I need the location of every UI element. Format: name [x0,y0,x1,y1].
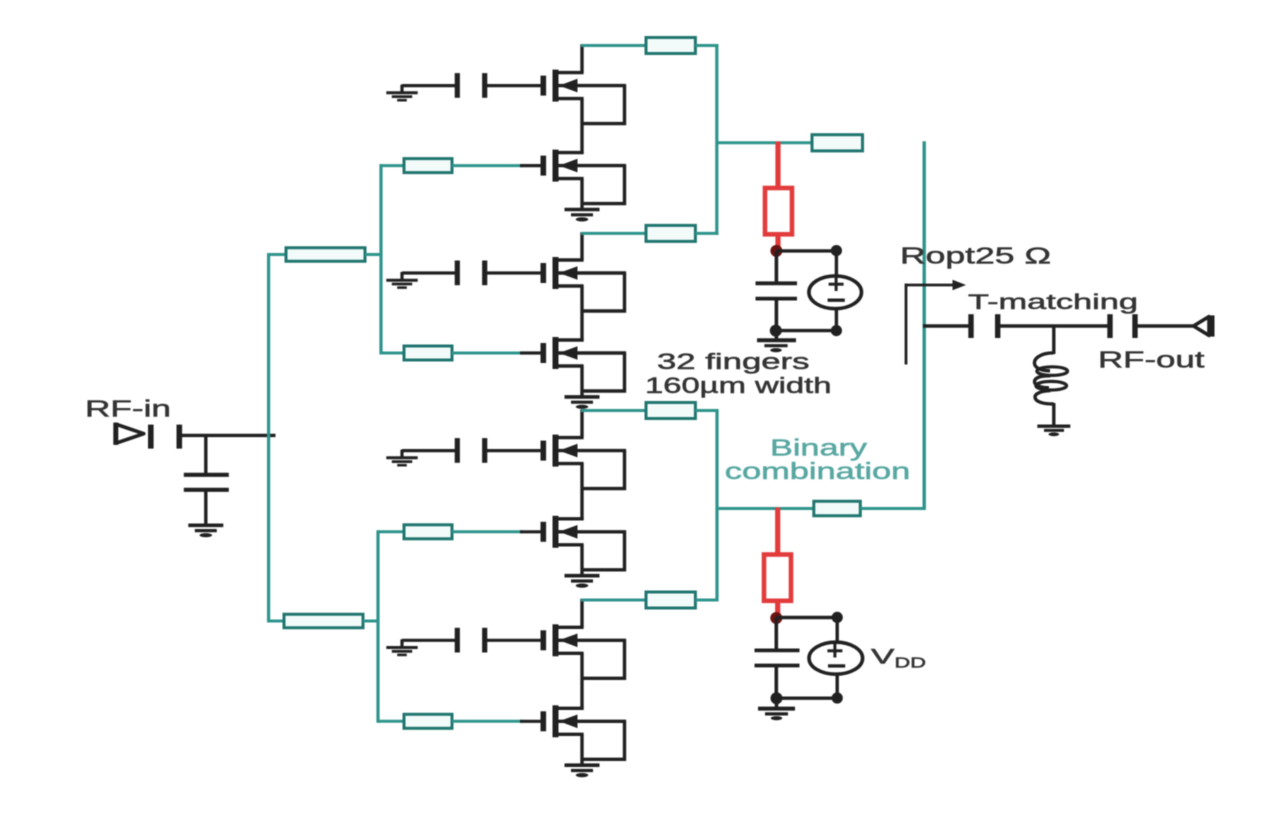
capacitor C-in plate 2 [177,425,183,449]
wire source bottom lead (lower) [836,674,839,698]
wire lower tap to feed node (teal) [717,507,815,510]
wire drain combine (teal) [695,409,718,412]
resistor RS1 (upper split) [286,248,365,262]
wire to ground (upper bypass) [775,331,779,339]
svg-text:Binary: Binary [770,435,867,461]
capacitor CB4 plate 2 [482,628,487,653]
ground (upper bypass) [757,340,796,352]
wire upper tap to feed node (teal) [717,141,813,144]
ground (T-match inductor) [1037,426,1070,436]
wire bias to gate [487,449,541,452]
wire input node [182,434,276,437]
voltage source V1 (VDD upper) [809,276,862,309]
wire to ground [204,492,207,525]
svg-text:V: V [871,646,894,669]
transistor M1a [543,70,626,124]
wire bias to gate [487,84,541,87]
node [831,245,842,256]
wire gate feed (black) [520,530,541,533]
wire source of M3b to ground [580,545,583,576]
resistor RS2 (lower split) [284,614,363,628]
wire bias row [402,271,456,274]
node [831,325,842,336]
resistor RD2 (drain resistor) [646,225,695,241]
port RF-out (output port symbol) [1194,315,1212,336]
svg-text:32 fingers: 32 fingers [657,349,810,374]
wire gate feed (black) [520,164,541,167]
wire to ground (lower bypass) [775,698,779,707]
wire bias to gate [487,639,541,642]
wire source of M4a to drain of M4b [580,653,583,710]
wire drain combine (teal) [581,232,647,235]
wire source of M2a to drain of M2b [580,286,583,342]
capacitor CB2 plate 2 [482,261,487,286]
svg-text:160µm width: 160µm width [645,373,832,398]
wire gate feed (teal) [381,352,405,355]
wire [363,620,380,623]
ground (lower bypass) [758,709,795,721]
wire upper branch to splitter resistor [267,253,287,256]
node [771,692,783,704]
svg-text:RF-in: RF-in [85,396,171,422]
wire gate feed (teal) [452,352,523,355]
ground (source of M4b) [565,765,600,777]
svg-text:combination: combination [725,458,911,484]
resistor RD3 (drain resistor) [646,403,695,419]
wire upper split rail (teal) [379,164,382,355]
wire source of M1b to ground [580,179,583,210]
wire shunt inductor stem [1052,326,1055,354]
wire [365,253,383,256]
ground (input shunt capacitor) [188,525,223,537]
wire red feed (lower, lower leg) [775,600,780,618]
wire drain of M3a to combiner [580,409,583,437]
resistor RD1 (drain resistor) [646,38,695,54]
wire gate feed (teal) [378,530,405,533]
wire lower branch to splitter resistor [267,620,285,623]
wire source of M1a to drain of M1b [580,99,583,155]
wire lower combining rail (teal) [715,409,718,602]
wire drain combine (teal) [581,409,647,412]
capacitor CB3 plate 2 [482,438,487,463]
wire source bottom lead (upper) [835,309,838,331]
wire drain of M4a to combiner [580,599,583,628]
ground (source of M2b) [565,397,600,409]
ground (bias of M4a) [386,639,417,655]
wire bypass top (lower) [776,616,837,619]
wire bypass bottom (lower) [777,697,838,700]
wire drain combine (teal) [695,232,718,235]
arrow Ropt (impedance looking arrow) [906,280,966,365]
wire inductor to ground [1052,403,1055,426]
wire bias row [402,84,456,87]
wire gate feed (teal) [452,164,523,167]
resistor RG3 (gate resistor) [404,525,452,539]
wire [775,300,779,332]
wire red feed (upper) [775,142,780,190]
svg-text:T-matching: T-matching [968,290,1138,314]
wire source top lead (upper) [835,251,838,277]
voltage source V2 (VDD) [809,642,863,674]
wire lower split rail (teal) [376,530,379,723]
wire source of M2b to ground [580,366,583,397]
resistor RG1 (gate resistor) [404,159,452,173]
resistor RG4 (gate resistor) [404,714,452,728]
svg-text:RF-out: RF-out [1098,347,1205,373]
wire gate feed (teal) [381,164,405,167]
wire drain of M2a to combiner [580,232,583,260]
transistor M2a [543,257,626,311]
transistor M3a [543,435,626,489]
wire to output port [1137,324,1194,327]
wire shunt-cap stem [204,435,207,473]
wire bias to gate [487,271,541,274]
capacitor CB1 plate 2 [482,73,487,98]
port RF-in (input port symbol) [116,423,144,445]
wire bias row [402,639,456,642]
wire bias row [402,449,456,452]
wire red feed (upper, lower leg) [775,234,780,252]
wire drain combine (teal) [581,599,647,602]
resistor RT1 (upper stub) [812,135,863,151]
capacitor CD2 plate 1 [755,649,800,653]
resistor RF2 (red feed resistor) [764,555,791,601]
wire bypass top (upper) [776,249,836,252]
transistor M4b [543,705,626,759]
transistor M1b [543,150,626,204]
capacitor C-in plate 1 [148,425,154,449]
node feed/bypass junction (lower) [770,612,782,624]
label VDD [871,646,926,672]
wire lower tap to output rail (teal) [860,507,925,510]
capacitor C2 plate 2 [1132,314,1137,338]
wire bypass cap stem [775,251,779,282]
wire gate feed (teal) [378,720,405,723]
ground (bias of M1a) [386,85,417,101]
capacitor C-sh plate 2 [184,488,229,492]
capacitor C-sh plate 1 [184,473,229,477]
wire drain combine (teal) [695,44,718,47]
capacitor CB4 plate 1 [455,628,460,653]
wire gate feed (black) [520,351,541,354]
wire output combination rail (teal) [923,141,926,510]
wire gate feed (teal) [452,530,523,533]
wire bypass bottom (upper) [776,329,837,332]
wire [774,667,778,699]
node [770,325,782,337]
wire source top lead (lower) [836,617,839,642]
transistor M2b [543,337,626,391]
wire drain of M1a to combiner [580,44,583,72]
resistor RD4 (drain resistor) [646,592,695,608]
wire drain combine (teal) [581,44,647,47]
ground (bias of M3a) [386,450,417,466]
wire drain combine (teal) [695,599,718,602]
svg-text:DD: DD [895,655,926,671]
capacitor CB2 plate 1 [455,261,460,286]
wire upper combining rail (teal) [715,44,718,235]
wire red feed (lower) [775,508,780,557]
resistor RT2 (lower stub) [814,501,861,516]
resistor RF1 (red feed resistor) [765,188,792,234]
svg-text:Ropt25 Ω: Ropt25 Ω [900,243,1051,269]
inductor L1 [1034,353,1067,404]
capacitor CD1 plate 1 [756,281,798,285]
ground (source of M3b) [565,576,600,588]
wire [1000,324,1108,327]
resistor RG2 (gate resistor) [404,346,452,360]
ground (source of M1b) [565,210,600,222]
capacitor C1 plate 2 [995,314,1000,338]
node [832,692,843,703]
capacitor C2 plate 1 [1107,314,1112,338]
transistor M4a [543,624,626,678]
wire gate feed (black) [520,720,541,723]
transistor M3b [543,516,626,570]
capacitor CB3 plate 1 [455,438,460,463]
wire gate feed (teal) [452,720,523,723]
wire source of M4b to ground [580,734,583,765]
capacitor CB1 plate 1 [455,73,460,98]
wire main input rail (teal) [267,253,270,623]
wire source of M3a to drain of M3b [580,464,583,521]
node [832,612,843,623]
capacitor CD1 plate 2 [756,297,798,301]
capacitor CD2 plate 2 [755,664,800,668]
ground (bias of M2a) [386,272,417,288]
capacitor C1 plate 1 [968,314,973,338]
wire bypass cap stem (lower) [774,618,778,650]
wire output rail to T-match [923,324,970,327]
node feed/bypass junction (upper) [770,245,782,257]
